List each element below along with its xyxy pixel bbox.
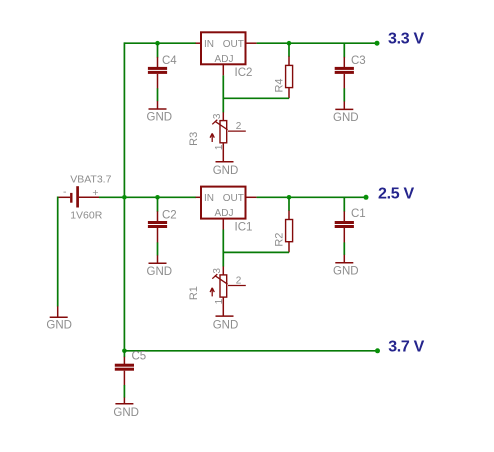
capacitor C1 [335, 208, 366, 242]
svg-text:GND: GND [333, 265, 359, 277]
svg-text:GND: GND [147, 112, 173, 124]
svg-text:3.3 V: 3.3 V [388, 30, 424, 47]
svg-text:R4: R4 [273, 78, 285, 92]
svg-text:C4: C4 [162, 55, 177, 67]
svg-text:C5: C5 [132, 350, 147, 362]
svg-text:IC2: IC2 [235, 67, 253, 79]
ground GND (R1) [213, 316, 239, 331]
ground GND (C5) [113, 398, 139, 419]
svg-text:GND: GND [46, 320, 72, 332]
junction dot R4 tap [287, 41, 292, 46]
battery VBAT3.7 [58, 173, 112, 221]
svg-text:VBAT3.7: VBAT3.7 [70, 173, 111, 185]
svg-text:ADJ: ADJ [215, 54, 234, 65]
endpoint dot 2.5V [364, 195, 369, 200]
svg-text:ADJ: ADJ [215, 208, 234, 219]
junction dot C2 tap [155, 195, 160, 200]
svg-text:3.7 V: 3.7 V [388, 339, 424, 356]
svg-text:OUT: OUT [223, 193, 244, 204]
capacitor C2 [148, 209, 177, 242]
wire C1 to ground [343, 242, 345, 255]
wire 2.5V rail [257, 196, 366, 198]
wire ADJ node horizontal (IC2) [223, 97, 289, 99]
wire ADJ node horizontal (IC1) [223, 251, 289, 253]
svg-text:R3: R3 [188, 132, 200, 146]
svg-text:R2: R2 [273, 233, 285, 247]
svg-text:GND: GND [113, 407, 139, 419]
endpoint dot 3.3V [375, 41, 380, 46]
svg-text:3: 3 [212, 268, 223, 274]
ground GND (battery) [46, 306, 72, 331]
svg-text:GND: GND [213, 319, 239, 331]
trimmer potentiometer R1 [188, 266, 246, 316]
capacitor C4 [148, 55, 177, 88]
wire ADJ node vertical (IC1) [222, 230, 224, 267]
svg-text:1: 1 [214, 144, 225, 150]
trimmer potentiometer R3 [188, 112, 246, 161]
wire bottom rail 3.7V [124, 350, 377, 352]
svg-text:GND: GND [333, 112, 359, 124]
wire C2 drop [157, 197, 159, 211]
svg-text:2: 2 [236, 121, 242, 132]
endpoint dot 3.7V [375, 348, 380, 353]
svg-text:1V60R: 1V60R [70, 210, 103, 222]
wire battery- down [57, 197, 59, 307]
svg-text:C1: C1 [351, 208, 366, 220]
wire C5 to ground [123, 385, 125, 398]
capacitor C3 [335, 55, 366, 89]
op-amp / regulator IC2 [196, 32, 257, 79]
wire C5 top [123, 351, 125, 357]
wire R4 top [288, 43, 290, 57]
wire C1 drop [343, 197, 345, 211]
wire C3 to ground [343, 88, 345, 101]
svg-text:IN: IN [204, 193, 214, 204]
ground GND (C4) [147, 101, 173, 124]
svg-text:2.5 V: 2.5 V [378, 185, 414, 202]
svg-text:IN: IN [204, 39, 214, 50]
svg-text:1: 1 [214, 298, 225, 304]
wire C3 drop [343, 43, 345, 57]
wire C2 to ground [157, 242, 159, 255]
svg-text:-: - [63, 186, 67, 198]
junction dot R2 tap [287, 195, 292, 200]
svg-text:IC1: IC1 [235, 222, 253, 234]
wire battery+ rail to IC1 IN [99, 196, 196, 198]
svg-text:C2: C2 [162, 209, 177, 221]
ground GND (C3) [333, 101, 359, 124]
svg-text:GND: GND [147, 266, 173, 278]
svg-text:2: 2 [236, 275, 242, 286]
wire top rail input segment (battery+ to IC2 IN) [124, 42, 196, 44]
svg-text:OUT: OUT [223, 39, 244, 50]
wire top rail output segment (3.3V net) [257, 42, 377, 44]
ground GND (C1) [333, 255, 359, 278]
junction dot C5 / bottom rail [122, 349, 127, 354]
resistor R2 [273, 211, 292, 253]
op-amp / regulator IC1 [196, 187, 257, 234]
ground GND (C2) [147, 255, 173, 277]
svg-text:+: + [92, 187, 98, 199]
ground GND (R3) [213, 162, 239, 177]
svg-text:C3: C3 [351, 55, 366, 67]
wire left vertical battery+ rail [123, 42, 125, 350]
resistor R4 [273, 56, 292, 98]
capacitor C5 [115, 350, 146, 385]
wire C4 to ground [157, 88, 159, 101]
junction dot battery rail / left vertical [122, 195, 127, 200]
wire ADJ node vertical (IC2) [222, 75, 224, 112]
svg-text:R1: R1 [188, 286, 200, 300]
junction dot C4 tap on top rail [155, 41, 160, 46]
wire C4 drop [157, 43, 159, 57]
svg-text:3: 3 [212, 113, 223, 119]
svg-text:GND: GND [213, 165, 239, 177]
wire R2 top [288, 197, 290, 211]
